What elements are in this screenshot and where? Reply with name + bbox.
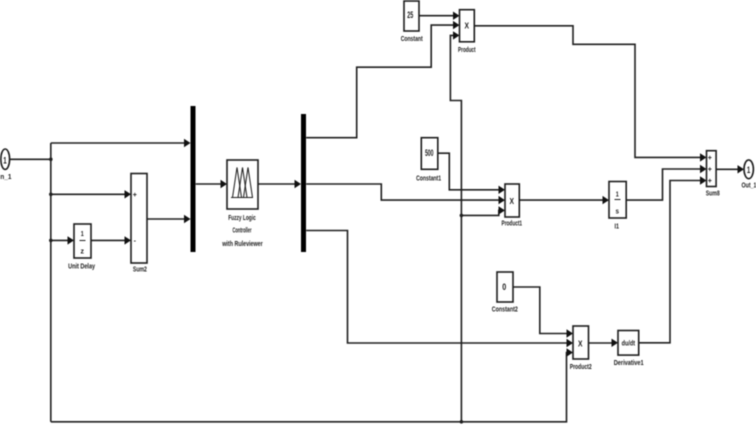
svg-text:In_1: In_1: [0, 172, 12, 181]
svg-text:Sum2: Sum2: [133, 265, 147, 274]
svg-text:X: X: [465, 22, 470, 31]
svg-text:0: 0: [502, 282, 506, 292]
svg-text:+: +: [133, 192, 137, 199]
svg-text:500: 500: [425, 148, 434, 158]
svg-text:X: X: [510, 197, 515, 206]
svg-text:Product2: Product2: [570, 362, 592, 371]
svg-text:du/dt: du/dt: [622, 339, 636, 348]
svg-text:+: +: [708, 155, 712, 162]
svg-text:Constant1: Constant1: [416, 174, 441, 183]
svg-text:Product1: Product1: [502, 219, 523, 228]
svg-text:I1: I1: [614, 222, 619, 231]
svg-text:Fuzzy Logic: Fuzzy Logic: [228, 213, 256, 222]
svg-text:25: 25: [407, 10, 413, 20]
svg-text:Constant2: Constant2: [492, 305, 518, 314]
svg-text:Controller: Controller: [233, 226, 252, 235]
svg-text:1: 1: [747, 165, 750, 175]
svg-text:Product: Product: [458, 45, 476, 54]
svg-text:Unit Delay: Unit Delay: [68, 262, 96, 271]
svg-text:z: z: [81, 247, 85, 256]
svg-text:Sum8: Sum8: [706, 189, 720, 198]
svg-text:Constant: Constant: [401, 34, 423, 43]
svg-text:s: s: [615, 207, 619, 216]
svg-text:1: 1: [81, 229, 84, 238]
svg-text:X: X: [578, 340, 583, 349]
svg-text:with Ruleviewer: with Ruleviewer: [222, 239, 263, 248]
svg-text:+: +: [708, 167, 712, 174]
svg-text:Derivative1: Derivative1: [614, 358, 644, 367]
svg-text:1: 1: [616, 190, 619, 199]
svg-text:1: 1: [3, 155, 6, 165]
svg-text:Out_1: Out_1: [742, 181, 756, 190]
svg-text:+: +: [708, 178, 712, 185]
